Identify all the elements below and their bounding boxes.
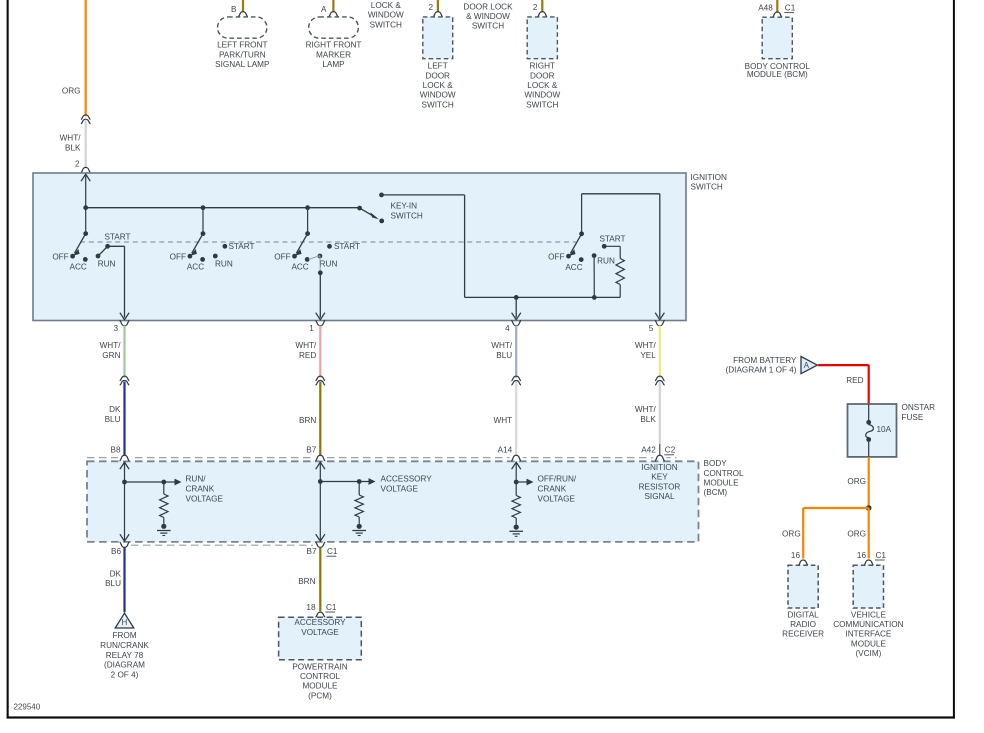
- vehicle communication interface module (dashed box): [853, 565, 883, 608]
- svg-text:WHT/: WHT/: [60, 134, 82, 143]
- svg-text:RUN/CRANK: RUN/CRANK: [100, 641, 149, 650]
- wire ORG branch to radio receiver: [803, 507, 869, 509]
- svg-text:(VCIM): (VCIM): [855, 649, 881, 658]
- wire WHT//BLK: [653, 453, 666, 461]
- contact START: [223, 244, 228, 249]
- triangle H from run/crank relay: [115, 613, 134, 628]
- pin 4 connector arc: [511, 321, 521, 326]
- wire resistor to ground: [163, 518, 165, 524]
- wire from pin 2 to bus: [85, 174, 87, 208]
- switch 4 contact ACC: [579, 257, 584, 262]
- svg-text:START: START: [104, 232, 130, 241]
- svg-text:DIGITAL: DIGITAL: [787, 610, 819, 619]
- pin 2 connector arc: [81, 167, 91, 172]
- svg-text:RUN: RUN: [98, 259, 116, 268]
- svg-text:A: A: [804, 361, 810, 370]
- switch 4 contact START: [602, 244, 607, 249]
- link ACC to RUN switch 3: [309, 256, 320, 260]
- svg-text:WHT/: WHT/: [491, 341, 513, 350]
- svg-text:3: 3: [113, 324, 118, 333]
- wire to resistor A14: [515, 482, 517, 496]
- digital radio receiver (dashed box): [788, 565, 818, 608]
- svg-text:SWITCH: SWITCH: [691, 183, 723, 192]
- switch 4 contact OFF: [566, 254, 571, 259]
- svg-text:POWERTRAIN: POWERTRAIN: [292, 663, 347, 672]
- svg-text:LOCK &: LOCK &: [371, 1, 402, 10]
- wire to lamp A: [332, 0, 334, 12]
- svg-text:DOOR: DOOR: [425, 71, 450, 80]
- right door lock & window switch (dashed box): [527, 17, 557, 59]
- svg-text:DOOR: DOOR: [530, 71, 555, 80]
- svg-text:OFF: OFF: [170, 252, 186, 261]
- branch wire off/run/crank voltage: [516, 481, 526, 483]
- svg-text:RED: RED: [846, 376, 863, 385]
- pin B7 connector arc: [315, 455, 325, 461]
- left front park/turn signal lamp (dashed stadium): [218, 17, 267, 38]
- wire WHT/BLK to ignition switch: [85, 120, 87, 167]
- svg-text:RED: RED: [299, 351, 316, 360]
- svg-text:C1: C1: [785, 4, 796, 13]
- switch 4 pivot: [579, 231, 584, 236]
- svg-text:START: START: [228, 242, 254, 251]
- wire WHT//RED: [319, 326, 321, 378]
- junction bus at switch 2: [201, 205, 206, 210]
- svg-text:OFF: OFF: [52, 252, 68, 261]
- ground A14: [514, 525, 519, 530]
- svg-text:GRN: GRN: [102, 351, 120, 360]
- contact ACC: [305, 257, 310, 262]
- wire to lamp B: [242, 0, 244, 12]
- svg-text:SWITCH: SWITCH: [391, 211, 423, 220]
- svg-text:MODULE: MODULE: [704, 479, 740, 488]
- junction resistor branch: [161, 480, 166, 485]
- B8 entry arrow: [120, 462, 129, 469]
- svg-text:KEY-IN: KEY-IN: [391, 202, 418, 211]
- svg-text:START: START: [599, 235, 625, 244]
- svg-text:IGNITION: IGNITION: [691, 173, 727, 182]
- svg-text:RUN/: RUN/: [186, 474, 207, 483]
- svg-text:RIGHT FRONT: RIGHT FRONT: [306, 41, 362, 50]
- inner feed wire top: [582, 193, 660, 195]
- wire to resistor B7: [358, 482, 360, 496]
- svg-text:B: B: [231, 5, 237, 14]
- svg-text:OFF/RUN/: OFF/RUN/: [538, 475, 577, 484]
- switch 4 wiper: [570, 234, 581, 254]
- svg-text:FROM BATTERY: FROM BATTERY: [733, 356, 797, 365]
- svg-text:ORG: ORG: [62, 87, 81, 96]
- svg-text:WINDOW: WINDOW: [420, 91, 456, 100]
- wire DK BLU to relay: [123, 547, 125, 612]
- wire WHT: [510, 453, 523, 461]
- pin A42 connector arc: [655, 455, 665, 461]
- resistor ignition switch: [616, 259, 624, 285]
- switch 4 contact RUN: [592, 253, 597, 258]
- svg-text:MARKER: MARKER: [316, 50, 351, 59]
- svg-text:2: 2: [428, 3, 433, 12]
- wire WHT//GRN: [123, 326, 125, 378]
- junction below RUN switch 3: [318, 270, 323, 275]
- svg-text:CRANK: CRANK: [538, 485, 567, 494]
- wire switch1 RUN to START to pin 3 exit: [98, 246, 108, 256]
- in-line connector on left wire: [81, 115, 91, 120]
- branch wire run/crank voltage: [125, 481, 175, 483]
- wire resistor to ground A14: [515, 518, 517, 525]
- svg-text:PARK/TURN: PARK/TURN: [219, 50, 266, 59]
- wire to BCM pin A48: [776, 0, 778, 12]
- svg-text:SIGNAL: SIGNAL: [644, 492, 674, 501]
- svg-text:10A: 10A: [877, 425, 892, 434]
- svg-text:5: 5: [649, 324, 654, 333]
- svg-text:MODULE: MODULE: [302, 682, 338, 691]
- svg-text:START: START: [334, 242, 360, 251]
- svg-text:ORG: ORG: [847, 477, 866, 486]
- svg-text:229540: 229540: [14, 702, 41, 711]
- contact RUN: [213, 254, 218, 259]
- svg-text:B7: B7: [306, 547, 316, 556]
- svg-text:18: 18: [306, 603, 316, 612]
- wire down to switch 4 pivot: [581, 194, 583, 234]
- onstar fuse box: [848, 404, 897, 457]
- pin 3 connector arc: [120, 321, 130, 326]
- wire BRN to PCM: [319, 547, 321, 611]
- wire resistor to lower bus: [619, 285, 621, 298]
- svg-text:SWITCH: SWITCH: [370, 20, 402, 29]
- svg-text:VOLTAGE: VOLTAGE: [381, 484, 419, 493]
- svg-text:RESISTOR: RESISTOR: [639, 482, 681, 491]
- svg-text:MODULE (BCM): MODULE (BCM): [747, 70, 808, 79]
- wire WHT//YEL: [659, 326, 661, 378]
- svg-text:WHT/: WHT/: [635, 405, 657, 414]
- pin 1 connector arc: [315, 321, 325, 326]
- junction bus at switch 1: [83, 205, 88, 210]
- svg-text:SWITCH: SWITCH: [472, 22, 504, 31]
- svg-text:LOCK &: LOCK &: [423, 81, 454, 90]
- svg-text:1: 1: [309, 324, 314, 333]
- in-line connector: [655, 376, 665, 381]
- ignition bus wire: [86, 207, 360, 209]
- pin B7 C1 connector arc: [315, 542, 325, 547]
- wire ORG to VCIM: [868, 508, 870, 559]
- svg-text:VOLTAGE: VOLTAGE: [186, 494, 224, 503]
- pin 1 exit arrow: [316, 313, 325, 320]
- svg-text:CONTROL: CONTROL: [300, 672, 340, 681]
- svg-text:ACC: ACC: [187, 263, 204, 272]
- svg-text:C1: C1: [876, 551, 887, 560]
- svg-text:BLK: BLK: [65, 144, 81, 153]
- svg-text:WHT/: WHT/: [100, 341, 122, 350]
- mechanical linkage dashed line: [80, 241, 576, 243]
- svg-text:DK: DK: [110, 569, 122, 578]
- junction ORG split: [866, 505, 872, 511]
- wire to pin 1 exit: [319, 273, 321, 318]
- pin 16 connector arc radio: [798, 560, 808, 565]
- svg-text:BRN: BRN: [299, 416, 316, 425]
- svg-text:4: 4: [505, 324, 510, 333]
- pin 16 connector arc VCIM: [864, 560, 874, 565]
- in-line connector: [120, 376, 130, 381]
- svg-text:(PCM): (PCM): [308, 691, 332, 700]
- svg-text:A42: A42: [641, 445, 656, 454]
- key-in switch contact: [379, 219, 384, 224]
- BCM connector face line top: [87, 457, 677, 459]
- contact START: [105, 244, 110, 249]
- svg-text:C1: C1: [326, 603, 337, 612]
- wire RED from battery: [818, 364, 869, 366]
- wire START to resistor: [604, 245, 620, 247]
- svg-text:LEFT FRONT: LEFT FRONT: [217, 41, 267, 50]
- svg-text:WHT: WHT: [494, 416, 513, 425]
- contact OFF: [292, 254, 297, 259]
- B7 C1 exit arrow: [316, 534, 325, 541]
- junction bus at switch 3: [305, 205, 310, 210]
- svg-text:CONTROL: CONTROL: [704, 469, 744, 478]
- svg-text:BODY: BODY: [704, 459, 728, 468]
- svg-text:VOLTAGE: VOLTAGE: [301, 628, 339, 637]
- svg-text:LAMP: LAMP: [322, 60, 345, 69]
- resistor B8 pull-down: [160, 494, 168, 517]
- svg-text:LEFT: LEFT: [428, 62, 448, 71]
- svg-text:2: 2: [533, 3, 538, 12]
- contact OFF: [70, 254, 75, 259]
- svg-text:IGNITION: IGNITION: [641, 463, 677, 472]
- fuse element 10A: [868, 404, 870, 420]
- svg-text:(DIAGRAM 1 OF 4): (DIAGRAM 1 OF 4): [726, 365, 797, 374]
- pin 3 exit arrow: [120, 313, 129, 320]
- svg-text:ORG: ORG: [782, 530, 801, 539]
- svg-text:ORG: ORG: [847, 530, 866, 539]
- svg-text:BLU: BLU: [496, 351, 512, 360]
- ground B8: [161, 524, 166, 529]
- key-in switch pivot: [357, 206, 362, 211]
- svg-text:WINDOW: WINDOW: [524, 91, 560, 100]
- svg-text:A: A: [321, 5, 327, 14]
- svg-text:WHT/: WHT/: [295, 341, 317, 350]
- junction lower bus switch 4 RUN: [592, 295, 597, 300]
- wire to right door switch: [541, 0, 543, 12]
- svg-text:BLU: BLU: [105, 579, 121, 588]
- pin B8 connector arc: [120, 455, 130, 461]
- wire BRN: [314, 453, 327, 461]
- right front marker lamp (dashed stadium): [309, 17, 359, 38]
- wire ORG from top: [85, 0, 87, 116]
- body control module BCM (dashed box, top): [762, 17, 792, 59]
- svg-text:RECEIVER: RECEIVER: [782, 630, 824, 639]
- svg-text:CRANK: CRANK: [186, 484, 215, 493]
- wire B7 to B7/C1 through BCM: [319, 462, 321, 541]
- pin 4 exit arrow: [512, 313, 521, 320]
- connector arc lamp A: [329, 12, 339, 17]
- svg-text:LOCK &: LOCK &: [527, 81, 558, 90]
- svg-text:KEY: KEY: [651, 473, 668, 482]
- resistor B7 pull-down: [355, 495, 363, 517]
- svg-text:A48: A48: [758, 4, 773, 13]
- svg-text:VOLTAGE: VOLTAGE: [538, 494, 576, 503]
- pin 5 connector arc: [655, 321, 665, 326]
- svg-text:BRN: BRN: [298, 577, 315, 586]
- contact RUN: [318, 254, 323, 259]
- wire DK/BLU: [118, 453, 131, 461]
- svg-text:INTERFACE: INTERFACE: [845, 630, 891, 639]
- svg-text:(BCM): (BCM): [704, 488, 728, 497]
- wire B8 to B6 through BCM: [124, 462, 126, 541]
- A14 entry arrow: [512, 462, 521, 469]
- svg-text:ACCESSORY: ACCESSORY: [381, 474, 433, 483]
- svg-text:WHT/: WHT/: [635, 341, 657, 350]
- svg-text:SIGNAL LAMP: SIGNAL LAMP: [215, 60, 270, 69]
- svg-text:H: H: [122, 618, 128, 627]
- pin B6 connector arc: [120, 542, 130, 547]
- branch wire accessory voltage: [320, 481, 368, 483]
- pin 5 exit arrow: [655, 313, 664, 320]
- wire WHT//BLU: [515, 326, 517, 378]
- junction lower bus pin 4: [514, 295, 519, 300]
- in-line connector: [511, 376, 521, 381]
- B6 exit arrow: [120, 534, 129, 541]
- svg-text:BLU: BLU: [105, 415, 121, 424]
- svg-text:COMMUNICATION: COMMUNICATION: [833, 620, 903, 629]
- svg-text:YEL: YEL: [640, 351, 656, 360]
- svg-text:DOOR LOCK: DOOR LOCK: [463, 2, 513, 11]
- svg-text:ACC: ACC: [291, 263, 308, 272]
- left door lock & window switch (dashed box): [423, 17, 453, 59]
- wire to pin 4 exit: [515, 297, 517, 317]
- connector arc lamp B: [238, 12, 248, 17]
- svg-text:B6: B6: [111, 547, 121, 556]
- svg-text:16: 16: [857, 551, 867, 560]
- svg-text:(DIAGRAM: (DIAGRAM: [104, 661, 145, 670]
- svg-text:FUSE: FUSE: [902, 413, 924, 422]
- svg-text:DK: DK: [109, 405, 121, 414]
- powertrain control module (dashed box): [279, 617, 362, 660]
- svg-text:A14: A14: [498, 445, 513, 454]
- svg-text:MODULE: MODULE: [851, 639, 887, 648]
- svg-text:SWITCH: SWITCH: [526, 100, 558, 109]
- wire to resistor: [163, 482, 165, 494]
- connector arc A48: [772, 12, 782, 17]
- svg-text:C1: C1: [327, 547, 338, 556]
- svg-text:16: 16: [791, 551, 801, 560]
- contact START: [327, 244, 332, 249]
- svg-text:RADIO: RADIO: [790, 620, 816, 629]
- key-in switch wiper: [360, 208, 377, 218]
- contact ACC: [83, 257, 88, 262]
- svg-text:B7: B7: [306, 445, 316, 454]
- ignition switch wiper at x=203.0: [202, 208, 204, 234]
- svg-text:RIGHT: RIGHT: [530, 62, 555, 71]
- junction A14: [514, 480, 519, 485]
- wire switch4 feed to pin 5 exit: [659, 194, 661, 318]
- in-line connector: [316, 376, 326, 381]
- ground B7: [357, 524, 362, 529]
- pin 18 connector arc: [315, 612, 325, 617]
- contact OFF: [188, 254, 193, 259]
- wire to left door switch: [437, 0, 439, 12]
- junction B7 branch: [318, 479, 323, 484]
- wire A14 to junction: [515, 462, 517, 482]
- connector arc left door: [433, 12, 443, 17]
- contact ACC: [200, 257, 205, 262]
- svg-text:2 OF 4): 2 OF 4): [111, 671, 139, 680]
- wire ORG below fuse: [868, 457, 870, 508]
- svg-text:OFF: OFF: [274, 252, 290, 261]
- contact RUN: [96, 254, 101, 259]
- pin A14 connector arc: [511, 455, 521, 461]
- ignition switch wiper at x=85.7: [85, 208, 87, 234]
- svg-text:B8: B8: [110, 445, 120, 454]
- wire RUN switch 3 down: [319, 256, 321, 273]
- ignition switch wiper at x=307.6: [307, 208, 309, 234]
- lower bus wire: [465, 296, 621, 298]
- wire resistor to ground B7: [358, 517, 360, 524]
- svg-text:RELAY 78: RELAY 78: [106, 651, 144, 660]
- ignition switch box: [33, 173, 686, 321]
- svg-text:& WINDOW: & WINDOW: [466, 12, 510, 21]
- svg-text:ACC: ACC: [70, 263, 87, 272]
- wire down to lower bus: [464, 195, 466, 298]
- junction B8 branch: [122, 480, 127, 485]
- svg-text:OFF: OFF: [548, 252, 564, 261]
- triangle A from battery: [801, 357, 817, 374]
- svg-text:RUN: RUN: [215, 259, 233, 268]
- B7 entry arrow: [316, 462, 325, 469]
- wire key-in output right: [382, 194, 465, 196]
- svg-text:RUN: RUN: [597, 257, 615, 266]
- svg-text:ACCESSORY: ACCESSORY: [294, 618, 346, 627]
- BCM connector face line bottom: [131, 544, 313, 546]
- svg-text:SWITCH: SWITCH: [422, 100, 454, 109]
- svg-text:VEHICLE: VEHICLE: [851, 610, 887, 619]
- svg-text:RUN: RUN: [320, 259, 338, 268]
- svg-text:FROM: FROM: [112, 631, 136, 640]
- resistor A14 pull-down: [512, 496, 520, 519]
- connector arc right door: [537, 12, 547, 17]
- svg-text:2: 2: [75, 160, 80, 169]
- svg-text:ACC: ACC: [565, 263, 582, 272]
- body control module BCM (dashed box): [87, 461, 699, 542]
- svg-text:C2: C2: [665, 446, 676, 455]
- key-in switch output node: [379, 193, 384, 198]
- wire up to RUN contact switch 4: [593, 256, 595, 298]
- svg-text:BLK: BLK: [640, 415, 656, 424]
- pin 2 entry arrow: [81, 174, 90, 181]
- svg-text:WINDOW: WINDOW: [368, 11, 404, 20]
- junction resistor branch B7: [357, 479, 362, 484]
- svg-text:ONSTAR: ONSTAR: [902, 403, 936, 412]
